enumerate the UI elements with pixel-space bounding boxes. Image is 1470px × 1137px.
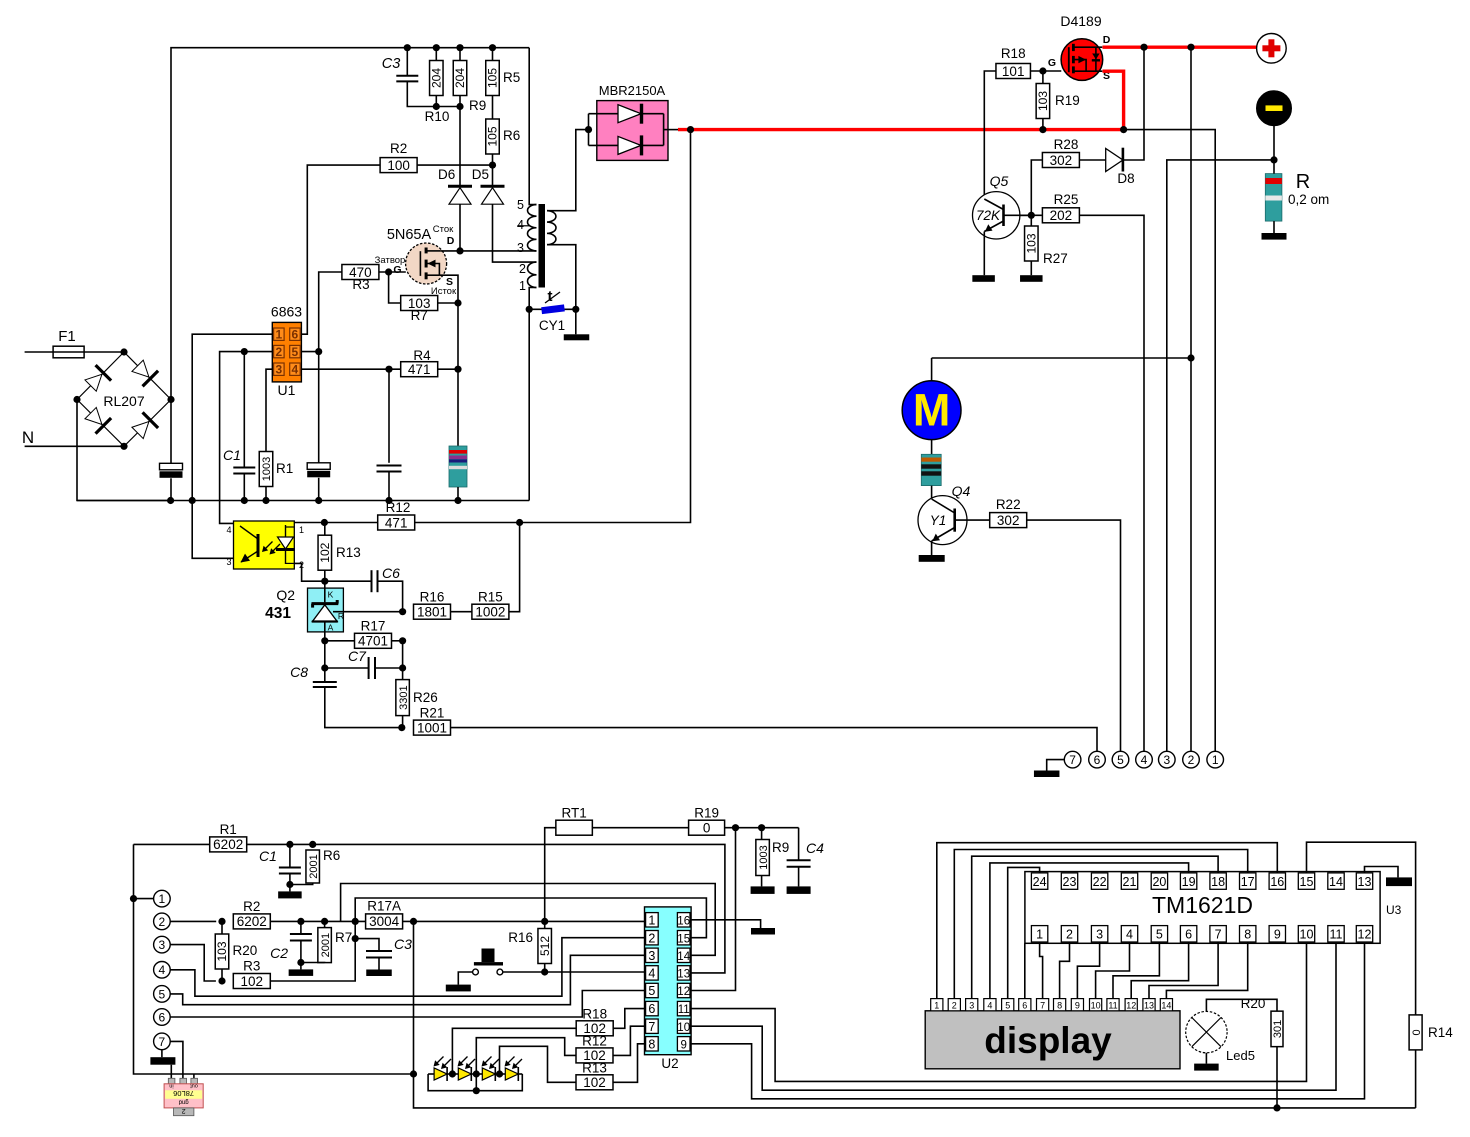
wire Q2 anode — [321, 622, 328, 645]
resistor R28 — [1042, 137, 1079, 168]
label Stok — [433, 224, 455, 247]
svg-text:9: 9 — [1274, 928, 1281, 942]
wire R19 top — [1042, 71, 1044, 84]
resistor R12 — [378, 500, 415, 530]
resistor R7 — [401, 296, 438, 324]
svg-text:102: 102 — [583, 1075, 606, 1090]
led D3 — [471, 1057, 503, 1082]
wire R4 node down to cap3 — [388, 369, 390, 463]
rectifier right bracket — [663, 114, 665, 146]
svg-text:1: 1 — [648, 913, 655, 927]
wire TM pin1 to display pin7 — [1040, 942, 1043, 999]
wire ctrl terminal7 to 78l06 — [170, 1041, 183, 1079]
wire U1 pin2 to opto pin4 — [220, 348, 273, 523]
resistor R27 — [1025, 226, 1068, 266]
svg-text:Led5: Led5 — [1226, 1048, 1255, 1063]
wire R16-R15 — [451, 611, 472, 613]
resistor R19 — [1036, 84, 1080, 119]
svg-text:M: M — [913, 385, 951, 436]
svg-text:15: 15 — [1300, 875, 1314, 889]
wire Led5 top to R20 — [1206, 999, 1277, 1011]
svg-text:12: 12 — [1126, 1000, 1136, 1010]
dot bridge right — [167, 396, 174, 403]
svg-text:R12: R12 — [386, 500, 411, 515]
led D4 — [496, 1057, 523, 1082]
svg-text:RT1: RT1 — [561, 806, 586, 821]
resistor R2 — [380, 141, 417, 173]
resistor R26 — [396, 680, 438, 716]
svg-text:0,2 om: 0,2 om — [1288, 192, 1329, 207]
wire C8 top — [324, 668, 326, 682]
svg-text:R28: R28 — [1054, 137, 1079, 152]
dot drain red 2 — [1187, 44, 1194, 51]
svg-text:D: D — [447, 235, 455, 247]
svg-text:5: 5 — [1156, 928, 1163, 942]
wire N input — [25, 443, 128, 450]
svg-text:U3: U3 — [1386, 903, 1402, 917]
wire display pin1 to TM pin16 — [937, 843, 1278, 999]
rectifier left bracket — [585, 114, 592, 146]
wire R27 to ground — [1030, 261, 1032, 275]
svg-text:Q2: Q2 — [276, 587, 295, 603]
svg-text:R16: R16 — [420, 590, 445, 605]
svg-text:100: 100 — [387, 158, 410, 173]
wire terminal7 to ground — [1047, 760, 1065, 771]
svg-text:R3: R3 — [352, 277, 369, 292]
ground Led5 — [1194, 1064, 1219, 1071]
svg-text:R2: R2 — [390, 141, 407, 156]
ground R9 ctrl — [751, 886, 775, 894]
wire button left to ground — [458, 972, 472, 985]
svg-text:11: 11 — [678, 1004, 690, 1016]
wire R17A right to U2 pin1 — [403, 918, 645, 925]
wire bridge right up to top rail — [171, 48, 529, 400]
svg-text:1003: 1003 — [758, 845, 770, 869]
svg-text:R1: R1 — [276, 461, 293, 476]
svg-text:5: 5 — [517, 198, 524, 212]
svg-text:8: 8 — [648, 1037, 655, 1051]
label D4189 G — [1048, 57, 1056, 69]
svg-text:in: in — [169, 1082, 173, 1088]
red wire V+ rail — [678, 128, 1124, 131]
wire U2 pin16 to ground — [691, 920, 761, 928]
wire ctrl terminal3 — [170, 945, 216, 981]
wire R13 top — [324, 523, 326, 536]
diode D8 — [1106, 148, 1135, 186]
thermistor RT1 — [556, 806, 593, 836]
svg-text:D6: D6 — [438, 167, 455, 182]
wire shunt to ground — [1273, 221, 1275, 233]
svg-text:R20: R20 — [233, 943, 258, 958]
ground R27 — [1020, 275, 1043, 282]
wire U2 pin6 to R18 — [613, 1009, 645, 1029]
ground terminal7 — [1034, 771, 1060, 778]
svg-text:Y1: Y1 — [930, 513, 947, 528]
svg-text:1001: 1001 — [417, 720, 447, 735]
svg-text:15: 15 — [677, 933, 690, 945]
transformer primary winding 5-3 — [528, 205, 537, 251]
svg-text:Q5: Q5 — [990, 173, 1009, 189]
schottky diode 1 — [589, 104, 664, 124]
terminal plus — [1257, 34, 1287, 64]
ground button — [446, 985, 471, 992]
wire R2 to R17A — [270, 918, 365, 925]
ground TM pin13 — [1386, 877, 1412, 886]
bridge diode top-left — [83, 365, 111, 393]
svg-text:2001: 2001 — [320, 933, 332, 957]
wire C1 to pin2 — [243, 352, 245, 468]
svg-text:2: 2 — [159, 915, 166, 929]
wire R12 to led2 node — [476, 1038, 576, 1074]
svg-text:7: 7 — [1215, 928, 1222, 942]
label D4189 — [1060, 13, 1101, 29]
svg-text:TM1621D: TM1621D — [1152, 892, 1253, 918]
svg-text:1: 1 — [275, 328, 282, 342]
wire red rail to terminal1 line — [1124, 130, 1216, 752]
wire R3 to gate — [379, 268, 406, 275]
wire terminal6 up to R21 line — [450, 728, 1097, 752]
svg-text:14: 14 — [1161, 1000, 1171, 1010]
wire U2 pin8 to R13 — [613, 1044, 645, 1083]
dot drain red 1 — [1140, 44, 1147, 51]
dot bus R1 — [262, 497, 269, 504]
fusible resistor colored — [449, 446, 467, 487]
wire R1 to bus — [265, 487, 267, 501]
svg-text:2: 2 — [275, 345, 282, 359]
svg-text:6: 6 — [1022, 1000, 1027, 1010]
dot bus opto — [189, 497, 196, 504]
svg-text:G: G — [1048, 57, 1056, 69]
wire R7 ctrl top — [324, 921, 326, 927]
wire R26 bottom — [402, 716, 404, 728]
capacitor C1 ctrl — [259, 848, 301, 874]
wire source down — [440, 275, 458, 446]
svg-text:gnd: gnd — [179, 1099, 189, 1105]
wire C3 bottom — [407, 81, 436, 106]
svg-text:R3: R3 — [243, 959, 260, 974]
resistor R18 — [996, 46, 1030, 79]
wire TM pin8 to display pin14 — [1166, 942, 1247, 999]
svg-text:7: 7 — [159, 1035, 166, 1049]
label D4189 S — [1103, 70, 1110, 82]
ic U2 pins — [646, 913, 691, 1052]
wire R3 left to pin5 rail — [319, 272, 342, 352]
label U1 — [278, 382, 296, 398]
ic U1 6863 body — [272, 322, 301, 382]
wire R6 to R2 node — [489, 154, 496, 169]
svg-text:D: D — [1103, 34, 1111, 46]
wire motor to terminal2 line — [932, 354, 1195, 361]
svg-text:7: 7 — [648, 1020, 655, 1034]
wire rectifier out down to R12 line — [414, 130, 690, 523]
svg-text:R1: R1 — [220, 822, 237, 837]
svg-text:5N65A: 5N65A — [387, 227, 432, 243]
wire R6 bottom link — [290, 883, 313, 885]
led D2 — [447, 1057, 480, 1082]
svg-text:471: 471 — [408, 362, 431, 377]
svg-text:Сток: Сток — [433, 224, 454, 235]
svg-text:3: 3 — [517, 241, 524, 255]
resistor R13 ctrl — [576, 1061, 613, 1091]
wire CY1 to ground — [575, 309, 577, 334]
resistor R4 — [401, 348, 438, 377]
svg-text:1003: 1003 — [261, 457, 273, 481]
label Q2 — [276, 587, 295, 603]
svg-text:17: 17 — [1241, 875, 1255, 889]
svg-text:6: 6 — [1185, 928, 1192, 942]
ground C1 ctrl — [278, 885, 302, 899]
wire TM pin5 to display pin11 — [1113, 942, 1159, 999]
transistor Q4 body — [918, 496, 967, 545]
svg-text:6: 6 — [1094, 753, 1101, 767]
primary bus wire — [77, 500, 529, 502]
transformer core — [539, 204, 546, 288]
terminal ctrl circle 6 — [154, 1009, 171, 1026]
svg-text:R7: R7 — [335, 930, 352, 945]
svg-text:4: 4 — [1126, 928, 1133, 942]
dot rectifier out — [687, 126, 694, 133]
wire C3 node to cap — [355, 939, 379, 951]
wire display pin2 to TM pin17 — [954, 850, 1247, 999]
wire R17 right — [392, 637, 407, 644]
wire TM pin2 to display pin8 — [1060, 942, 1070, 999]
dot bus cap2 — [315, 497, 322, 504]
transformer primary winding 2-1 — [528, 262, 537, 287]
svg-text:4: 4 — [987, 1000, 992, 1010]
svg-text:R12: R12 — [582, 1034, 607, 1049]
svg-text:78L06: 78L06 — [173, 1089, 194, 1098]
svg-text:18: 18 — [1211, 875, 1225, 889]
svg-text:22: 22 — [1093, 875, 1107, 889]
label Istok — [431, 276, 457, 297]
svg-text:14: 14 — [677, 951, 690, 963]
label 5N65A — [387, 227, 432, 243]
label N — [22, 428, 34, 447]
resistor R18 ctrl — [576, 1006, 613, 1036]
svg-text:G: G — [393, 264, 401, 276]
wire TM pin7 to display pin13 — [1149, 942, 1218, 999]
wire R16 512 top — [544, 921, 546, 928]
wire motor to choke — [931, 440, 933, 455]
wire R19 node down to U2 pin12 — [691, 828, 735, 991]
svg-text:3: 3 — [1096, 928, 1103, 942]
svg-text:431: 431 — [265, 605, 291, 622]
electrolytic cap2 — [307, 463, 330, 478]
wire U1 pin1 to opto pin3 — [192, 334, 272, 558]
svg-text:C6: C6 — [382, 565, 400, 581]
resistor R2 ctrl — [233, 899, 270, 929]
svg-text:R20: R20 — [1241, 996, 1266, 1011]
wire R15 up to R12 line — [509, 523, 520, 612]
label 72K — [976, 208, 1001, 223]
wire choke to Q4 — [931, 486, 933, 499]
svg-text:display: display — [984, 1020, 1112, 1061]
wire C1 to bus — [243, 474, 245, 501]
capacitor C5 film — [377, 466, 402, 472]
wire gate node down to R7 — [389, 272, 401, 303]
svg-text:10: 10 — [1300, 928, 1314, 942]
wire transformer pin5 entry — [529, 48, 536, 205]
wire R9 ctrl top — [761, 828, 763, 840]
svg-text:R16: R16 — [508, 930, 533, 945]
wire R1 right to U2 pin13 — [247, 841, 725, 973]
resistor R10 — [425, 44, 450, 124]
resistor R9 — [453, 44, 486, 113]
svg-text:3004: 3004 — [369, 914, 400, 929]
wire R10-R9 bottom link — [436, 106, 460, 108]
bulk capacitor — [160, 463, 183, 478]
wire bridge right down to bulk cap — [170, 400, 172, 464]
svg-text:302: 302 — [1050, 153, 1073, 168]
dot bus cap3 — [385, 497, 392, 504]
svg-text:12: 12 — [677, 986, 690, 998]
resistor R17 — [355, 619, 392, 649]
svg-text:2: 2 — [182, 1107, 186, 1114]
capacitor C6 — [372, 565, 401, 592]
wire C1 ctrl stem — [289, 844, 291, 867]
svg-text:14: 14 — [1329, 875, 1343, 889]
svg-text:4: 4 — [159, 963, 166, 977]
wire R3 right to C3 node — [270, 935, 359, 981]
svg-text:1: 1 — [934, 1000, 939, 1010]
wire R26 top — [402, 668, 404, 680]
wire Q2 cathode — [324, 581, 326, 602]
svg-text:4701: 4701 — [358, 634, 388, 649]
svg-text:3301: 3301 — [398, 685, 410, 709]
svg-text:6202: 6202 — [213, 837, 243, 852]
lamp Led5 — [1186, 1011, 1255, 1063]
svg-text:3: 3 — [1163, 753, 1170, 767]
wire button right to U2 pin4 — [503, 971, 645, 973]
dot CY1 left — [526, 306, 533, 313]
ground U2 pin16 — [751, 928, 775, 935]
wire fuse to bridge top — [84, 348, 128, 355]
wire R17 node down — [402, 641, 404, 668]
wire R28 to D8 — [1080, 159, 1106, 161]
wire U2 pin7 to R12 — [613, 1026, 645, 1055]
wire R17 left — [325, 640, 355, 642]
svg-text:5: 5 — [1005, 1000, 1010, 1010]
svg-text:102: 102 — [318, 542, 332, 562]
wire C4 bottom — [798, 867, 800, 887]
wire transformer pin1 down — [529, 288, 536, 310]
svg-text:4: 4 — [1141, 753, 1148, 767]
svg-text:R7: R7 — [411, 308, 428, 323]
svg-text:U1: U1 — [278, 382, 296, 398]
resistor R3 ctrl — [233, 959, 270, 989]
svg-text:Q4: Q4 — [952, 483, 971, 499]
wire R19 bottom — [1039, 119, 1127, 134]
svg-text:1002: 1002 — [475, 605, 505, 620]
wire R7 ctrl bottom — [301, 962, 325, 964]
wire R22 to terminal5 line — [1026, 520, 1120, 751]
svg-text:6: 6 — [648, 1002, 655, 1016]
svg-text:R27: R27 — [1043, 251, 1068, 266]
label U2 — [661, 1056, 678, 1071]
wire cap3 to bus — [388, 472, 390, 501]
transistor Q5 symbol — [984, 199, 1031, 232]
svg-text:5: 5 — [1117, 753, 1124, 767]
svg-text:R6: R6 — [503, 128, 520, 143]
wire secondary top to rectifier — [547, 130, 589, 211]
push button — [473, 949, 503, 975]
wire R17A node to C3 node — [354, 921, 356, 938]
resistor R3 — [342, 265, 379, 293]
resistor R14 — [1409, 1015, 1453, 1050]
svg-text:R21: R21 — [420, 705, 445, 720]
wire left rail vertical — [130, 844, 417, 1077]
wire terminal2 vertical — [1190, 47, 1192, 751]
wire led2 node to bracket — [475, 1074, 477, 1091]
wire Led5 bottom — [1205, 1053, 1207, 1064]
resistor R21 — [414, 705, 451, 735]
svg-text:19: 19 — [1182, 875, 1196, 889]
svg-text:1801: 1801 — [417, 605, 447, 620]
wire rectifier output stub — [664, 129, 679, 131]
wire Q2 ref to R16 node — [333, 611, 403, 613]
svg-text:R4: R4 — [413, 348, 431, 363]
svg-text:512: 512 — [538, 936, 552, 956]
svg-text:R18: R18 — [582, 1006, 607, 1021]
terminal ctrl circle 3 — [154, 936, 171, 953]
motor M — [902, 381, 961, 440]
svg-text:103: 103 — [1025, 233, 1039, 253]
svg-text:3: 3 — [159, 938, 166, 952]
wire R5 to R6 — [492, 96, 494, 120]
svg-text:0: 0 — [1411, 1029, 1423, 1035]
capacitor C4 — [787, 828, 825, 867]
terminal circle 4 — [1136, 751, 1153, 768]
svg-text:R17A: R17A — [367, 899, 401, 914]
ground C4 — [787, 886, 811, 894]
svg-text:1: 1 — [159, 892, 166, 906]
wire RT1 to R19 — [592, 827, 688, 829]
optocoupler pin labels — [226, 525, 304, 570]
capacitor C3 — [382, 56, 419, 81]
wire C7 right — [375, 664, 406, 671]
wire R13 to led3 node — [500, 1046, 577, 1082]
resistor R20 301 — [1241, 996, 1285, 1047]
label MBR2150A — [599, 83, 666, 98]
wire R25 left — [1020, 214, 1042, 216]
label D4189 D — [1103, 34, 1111, 46]
svg-text:N: N — [22, 428, 34, 447]
svg-text:5: 5 — [648, 984, 655, 998]
wire U2 pin9 to TM pin12 — [691, 943, 1364, 1099]
svg-text:23: 23 — [1063, 875, 1077, 889]
tl431 symbol — [312, 590, 345, 633]
svg-text:C1: C1 — [259, 848, 277, 864]
svg-text:D8: D8 — [1117, 171, 1134, 186]
svg-text:C1: C1 — [223, 447, 241, 463]
capacitor C1 — [223, 447, 255, 474]
capacitor C7 — [348, 648, 375, 679]
wire bus right end up to CY1 — [528, 309, 530, 500]
rectifier MBR2150A body — [597, 101, 668, 161]
mosfet D4189 symbol — [1069, 44, 1103, 74]
svg-text:R25: R25 — [1054, 192, 1079, 207]
svg-text:R9: R9 — [772, 840, 789, 855]
svg-text:out: out — [190, 1082, 198, 1088]
wire R19 right — [725, 824, 799, 831]
wire ctrl terminal2 to R2 — [170, 918, 225, 925]
thermistor CY1 — [529, 288, 576, 333]
resistor R15 — [472, 590, 509, 620]
ground CY1 — [564, 334, 590, 340]
wire R12 left to opto pin1 — [294, 519, 523, 526]
resistor R16 fb — [414, 590, 451, 620]
wire R16 512 bottom — [541, 964, 548, 976]
